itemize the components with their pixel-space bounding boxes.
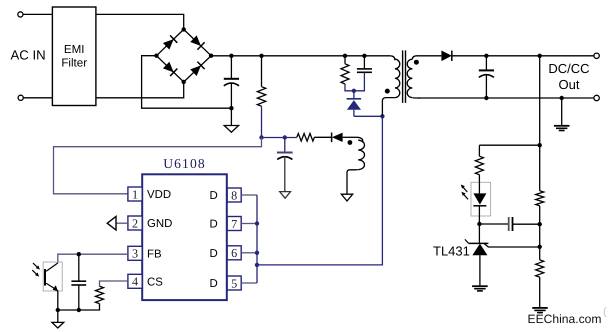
capacitor C2 VDD (277, 152, 293, 154)
transformer T1 secondary phase dot (414, 60, 419, 65)
U6108 pin 1 box (128, 187, 142, 201)
wire R1 bottom to VDD node (261, 106, 263, 137)
junction output bottom rail at C4 (484, 96, 488, 100)
wire pin6 stub (241, 252, 257, 254)
junction drain node (380, 114, 384, 118)
junction C1 bottom node (229, 106, 233, 110)
resistor R3 clamp lead (344, 56, 346, 64)
resistor R6 divider lower (536, 260, 544, 277)
U6108 pin 5 box (227, 276, 241, 290)
junction drain bus at pin6 (255, 251, 259, 255)
wire EMI top output to bridge AC node (96, 14, 184, 29)
junction FB node at C5 (77, 252, 81, 256)
svg-text:5: 5 (231, 276, 237, 290)
wire pin7 stub (241, 223, 257, 225)
transformer T1 primary winding (390, 56, 395, 60)
capacitor C1 lead bottom (230, 83, 232, 109)
junction C5 bottom node (77, 308, 81, 312)
optocoupler transistor box (43, 262, 62, 291)
transformer aux winding (357, 137, 363, 142)
svg-text:D: D (210, 219, 218, 231)
optocoupler LED box (471, 182, 491, 216)
svg-text:D: D (210, 248, 218, 260)
ground GND arrow pin2 (107, 216, 116, 230)
IC U6108 body (142, 174, 227, 300)
svg-text:EEChina.com: EEChina.com (528, 312, 602, 326)
capacitor C1 bulk (224, 78, 239, 80)
AC input terminal top (18, 12, 23, 17)
optocoupler LED lead bottom (478, 206, 480, 224)
wire R2 to diode D5 (314, 136, 331, 138)
svg-text:DC/CC: DC/CC (548, 61, 589, 76)
resistor R7 current sense (96, 286, 104, 303)
capacitor C6 comp lead right (513, 223, 540, 225)
svg-text:2: 2 (132, 216, 138, 230)
svg-text:FB: FB (147, 248, 162, 260)
svg-text:TL431: TL431 (433, 244, 470, 259)
bridge diode D4 (bottom node to right node) (190, 62, 205, 77)
ground VDD (below C2) (280, 192, 291, 199)
ground primary (below C1) (224, 126, 238, 133)
svg-text:6: 6 (231, 246, 237, 260)
junction LED cathode node (477, 222, 481, 226)
svg-text:EMI: EMI (64, 43, 85, 56)
diode D6 clamp TVS (353, 91, 355, 99)
wire pin2 GND stub (116, 222, 128, 224)
capacitor C1 bulk lead top (230, 56, 232, 79)
transformer T1 primary phase dot (385, 89, 390, 94)
wire D5 to aux winding (343, 136, 357, 138)
wire opto emitter rail (58, 309, 79, 311)
svg-text:CS: CS (147, 276, 163, 288)
junction opto emitter node (56, 308, 60, 312)
resistor R5 LED series (475, 156, 483, 175)
wire aux winding to ground (347, 170, 358, 195)
svg-text:AC IN: AC IN (11, 48, 46, 63)
aux winding phase dot (348, 140, 353, 145)
svg-text:Out: Out (559, 77, 580, 92)
ground secondary output (554, 125, 570, 127)
junction bridge bottom node (182, 80, 186, 84)
ground aux winding (341, 194, 352, 201)
wire LED cathode to TL431 (478, 224, 480, 243)
TL431 U3 cathode bar (469, 242, 489, 244)
wire pin5 stub (241, 282, 257, 284)
wire AC bottom terminal to EMI filter (23, 97, 52, 99)
capacitor C4 output lead top (485, 56, 487, 71)
resistor R3 clamp (341, 64, 349, 84)
junction ref node (538, 245, 542, 249)
capacitor C2 lead bottom (284, 156, 286, 192)
svg-text:4: 4 (132, 275, 138, 289)
wire AC top terminal to EMI filter (23, 13, 52, 15)
U6108 pin 7 box (227, 217, 241, 231)
wire bridge negative to bulk cap bottom (142, 56, 232, 108)
optocoupler LED emission arrows (462, 186, 467, 192)
wire drain bus to transformer (257, 116, 382, 265)
wire VDD node to aux rectifier (262, 137, 297, 139)
resistor R1 startup (257, 87, 265, 107)
TL431 U3 body (472, 244, 487, 256)
junction bridge top node (182, 27, 186, 31)
transformer T1 core (402, 50, 404, 103)
wire CS pin4 to R7 (100, 281, 128, 286)
capacitor C3 clamp (357, 68, 372, 70)
svg-text:Filter: Filter (61, 56, 87, 69)
wire output ground stem (561, 98, 563, 125)
junction HV rail at R3 (343, 54, 347, 58)
diode D7 output rectifier (441, 51, 451, 62)
transformer T1 secondary winding (407, 59, 412, 97)
svg-text:3: 3 (132, 247, 138, 261)
wire pin8 stub (241, 194, 257, 196)
capacitor C5 FB lead top (78, 254, 80, 281)
wire feedback takeoff down (539, 56, 541, 145)
wire TL431 anode to ground (479, 255, 481, 285)
resistor R1 startup lead (261, 56, 263, 87)
svg-text:U6108: U6108 (163, 156, 206, 171)
bridge rectifier BR1 diamond (157, 29, 212, 82)
svg-text:GND: GND (147, 218, 172, 230)
U6108 pin 2 box (128, 216, 142, 230)
wire EMI bottom output to bridge AC node (96, 82, 184, 98)
resistor R2 aux series (297, 134, 315, 142)
wire feedback top node to R5 (479, 144, 539, 146)
output terminal DC/CC minus (594, 95, 599, 100)
wire output bottom rail (418, 97, 594, 99)
svg-text:(: ( (603, 306, 607, 318)
junction HV rail at C3 (362, 54, 366, 58)
wire drain bus vertical (256, 195, 258, 283)
optocoupler transistor light arrows (33, 263, 38, 268)
svg-text:D: D (210, 190, 218, 202)
junction bridge left node (154, 54, 158, 58)
wire R4 to comp node (539, 206, 541, 224)
wire R6 to ground (539, 277, 541, 307)
optocoupler LED U2a (473, 193, 486, 204)
capacitor C5 FB filter (71, 280, 86, 282)
TL431 U3 reference line (484, 243, 540, 247)
transformer T1 primary lead bottom (382, 98, 395, 117)
ground TL431 (472, 285, 488, 287)
wire R4 upper lead (539, 145, 541, 191)
junction bridge right node (209, 54, 213, 58)
wire VDD node to U6108 pin1 (54, 138, 262, 194)
junction comp node (538, 222, 542, 226)
wire opto ground stem (57, 310, 59, 322)
AC input terminal bottom (18, 95, 23, 100)
svg-text:8: 8 (231, 188, 237, 202)
svg-text:7: 7 (231, 217, 237, 231)
capacitor C3 clamp lead (363, 56, 365, 69)
junction output bottom rail at ground (560, 96, 564, 100)
bridge diode D1 (left node to top node) (163, 35, 178, 50)
resistor R4 divider upper (536, 191, 544, 206)
resistor R6 divider lower lead (539, 247, 541, 260)
ground feedback divider (532, 307, 548, 309)
optocoupler transistor U2b (46, 263, 58, 271)
resistor R5 LED series lead (478, 145, 480, 156)
capacitor C4 lead bottom (485, 74, 487, 98)
wire clamp to drain node (354, 115, 383, 117)
wire C1 bottom to ground (230, 108, 232, 125)
U6108 pin 8 box (227, 188, 241, 202)
U6108 pin 4 box (128, 274, 142, 288)
capacitor C4 output (479, 69, 494, 71)
diode D5 aux rectifier (332, 133, 343, 142)
wire comp node to ref node (539, 224, 541, 247)
svg-text:D: D (210, 278, 218, 290)
junction HV rail at C1 (229, 54, 233, 58)
svg-text:1: 1 (132, 187, 138, 201)
wire D7 to output rail (452, 55, 594, 57)
junction output rail feedback takeoff (538, 54, 542, 58)
junction clamp node (352, 89, 356, 93)
U6108 pin 3 box (128, 246, 142, 260)
svg-text:VDD: VDD (147, 189, 171, 201)
junction feedback top node (538, 143, 542, 147)
bridge diode D2 (top node to right node) (190, 35, 205, 50)
wire clamp R3/C3 to node (345, 72, 364, 91)
wire FB pin3 to opto collector (58, 254, 128, 263)
wire HV rail (bridge + to transformer primary) (211, 55, 390, 57)
ground opto emitter (52, 322, 64, 328)
U6108 pin 6 box (227, 246, 241, 260)
capacitor C2 VDD lead top (284, 138, 286, 153)
junction VDD node B (at C2) (283, 135, 287, 139)
optocoupler LED lead top (478, 175, 480, 194)
junction drain bus at pin7 (255, 221, 259, 225)
junction output rail at C4 (484, 54, 488, 58)
bridge diode D3 (left node to bottom node) (163, 61, 178, 76)
EMI filter block (52, 7, 96, 106)
junction drain bus takeoff (255, 263, 259, 267)
junction VDD node A (259, 135, 263, 139)
capacitor C6 comp lead left (479, 223, 508, 225)
resistor R7 lead bottom (79, 304, 100, 310)
junction HV rail at R1 (259, 54, 263, 58)
capacitor C5 lead bottom (78, 285, 80, 310)
output terminal DC/CC plus (594, 53, 599, 58)
capacitor C6 comp (508, 217, 510, 231)
